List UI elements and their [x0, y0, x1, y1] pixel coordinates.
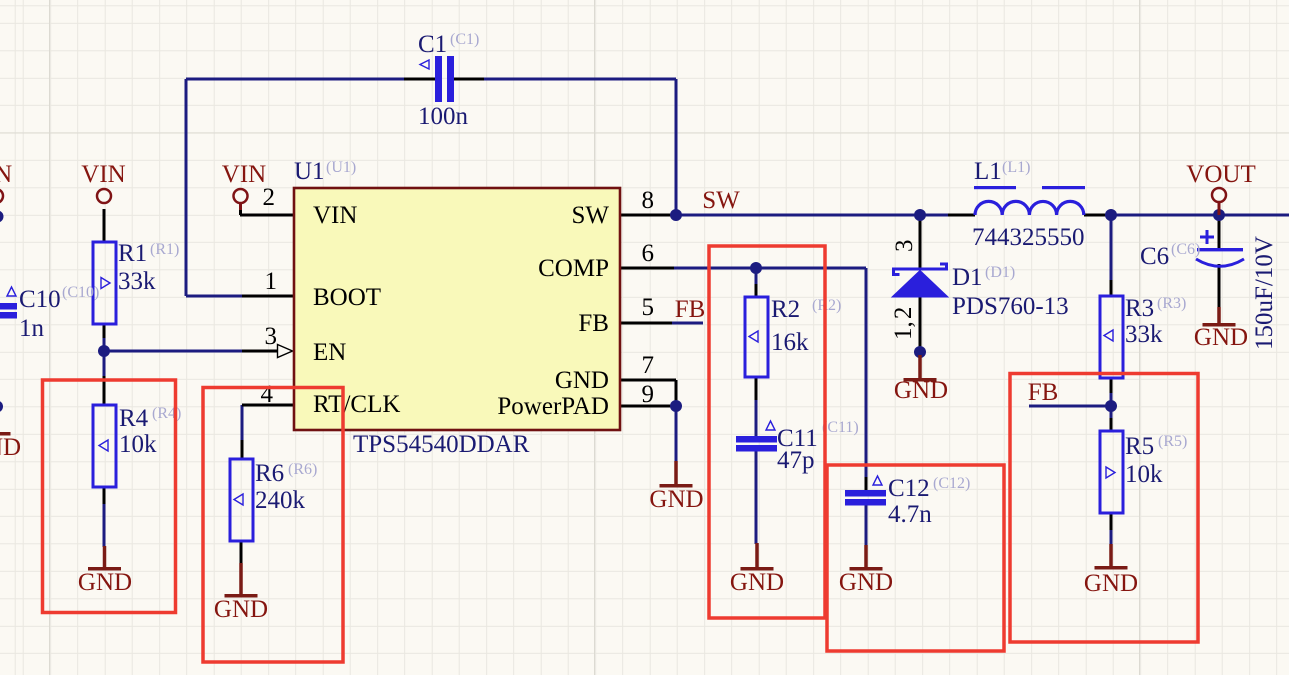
selection box around R2 C11 — [709, 246, 825, 618]
svg-text:GND: GND — [649, 486, 703, 513]
svg-text:U1: U1 — [294, 158, 325, 185]
wire SW node down to R3 — [1110, 215, 1113, 281]
svg-text:1, 2: 1, 2 — [890, 307, 917, 340]
port VOUT — [1186, 161, 1255, 215]
resistor R6 240k — [230, 459, 317, 541]
C6 lower pin stub — [1218, 264, 1221, 309]
svg-text:D1: D1 — [952, 264, 983, 291]
wire FB stub at pin5 — [672, 322, 703, 325]
capacitor C1 — [418, 31, 479, 130]
svg-text:R6: R6 — [255, 460, 284, 487]
port VIN left — [81, 161, 125, 203]
svg-text:1n: 1n — [19, 315, 45, 342]
svg-text:(R1): (R1) — [150, 241, 179, 258]
junction node D1/GND — [914, 346, 926, 358]
selection box around R6 — [203, 388, 343, 663]
wire VOUT node down to C6 — [1218, 215, 1221, 248]
wire SW horizontal run pin8 to L1 — [676, 214, 948, 217]
wire COMP horizontal — [674, 267, 866, 270]
svg-text:(L1): (L1) — [1002, 159, 1030, 176]
wire pin9 node down to GND — [675, 406, 678, 462]
svg-text:SW: SW — [702, 187, 740, 214]
svg-text:(C11): (C11) — [822, 419, 859, 436]
svg-text:PDS760-13: PDS760-13 — [952, 293, 1069, 320]
ground below R4 — [78, 546, 132, 596]
wire R4 bottom to GND — [103, 502, 106, 547]
svg-text:9: 9 — [642, 381, 655, 408]
junction node COMP/R2 — [750, 262, 762, 274]
wire EN horizontal from R1/R4 node — [104, 350, 242, 353]
C1 pin stubs — [404, 78, 484, 81]
pin 6 line — [620, 267, 674, 270]
svg-text:BOOT: BOOT — [313, 284, 381, 311]
junction node R1/R4/EN — [98, 345, 110, 357]
svg-text:3: 3 — [891, 240, 918, 253]
junction node FB/R3/R5 — [1105, 400, 1117, 412]
pin 8 line — [620, 214, 672, 217]
junction node pin8/SW — [670, 209, 682, 221]
svg-text:(R6): (R6) — [288, 461, 317, 478]
wire node down to R4 — [103, 351, 106, 378]
svg-text:GND: GND — [555, 367, 609, 394]
wire BOOT horizontal to pin1 — [186, 295, 242, 298]
svg-text:R1: R1 — [118, 240, 147, 267]
svg-text:1: 1 — [265, 268, 278, 295]
svg-text:150uF/10V: 150uF/10V — [1251, 236, 1278, 350]
svg-text:VOUT: VOUT — [1186, 161, 1255, 188]
svg-text:VIN: VIN — [222, 161, 266, 188]
capacitor C6 150uF/10V polarized — [1140, 230, 1278, 350]
pin 3 line with EN input triangle — [242, 350, 278, 353]
C12 top pin stub — [865, 477, 868, 490]
svg-text:33k: 33k — [118, 268, 156, 295]
L1 pin stubs — [948, 214, 1108, 217]
svg-text:GND: GND — [78, 569, 132, 596]
svg-text:EN: EN — [313, 339, 346, 366]
resistor R5 10k — [1100, 431, 1187, 513]
wire R2 drop from COMP node — [755, 268, 758, 284]
svg-text:(C1): (C1) — [450, 31, 479, 48]
svg-text:C1: C1 — [418, 31, 447, 58]
svg-text:(R3): (R3) — [1157, 295, 1186, 312]
wire C12 bottom to GND — [865, 505, 868, 546]
svg-text:GND: GND — [0, 434, 21, 461]
selection box around R4 — [43, 380, 176, 613]
pin 5 line — [620, 322, 672, 325]
junction node pin9/GND — [670, 400, 682, 412]
R4 pin stubs — [103, 376, 106, 504]
wire SW drop from C1 loop to pin8 — [675, 79, 678, 215]
pin 9 line and link to pin 7 — [620, 380, 676, 406]
svg-text:COMP: COMP — [538, 255, 609, 282]
svg-text:GND: GND — [1084, 570, 1138, 597]
junction sliver at left edge upper — [0, 211, 4, 223]
VIN left port drop to R1 — [103, 209, 106, 242]
resistor R4 10k — [93, 405, 181, 487]
pin 7 line — [620, 379, 676, 382]
svg-text:3: 3 — [265, 323, 278, 350]
junction node SW/D1 — [914, 209, 926, 221]
svg-text:(C12): (C12) — [933, 475, 970, 492]
selection box around R5 — [1010, 374, 1198, 643]
svg-text:10k: 10k — [119, 431, 157, 458]
ground below C12 — [839, 545, 893, 596]
svg-text:R3: R3 — [1125, 295, 1154, 322]
svg-text:R5: R5 — [1125, 433, 1154, 460]
junction node VOUT/C6 — [1213, 209, 1225, 221]
svg-text:C12: C12 — [888, 475, 930, 502]
port VIN pin2 — [222, 161, 266, 210]
wire R5 bottom to GND — [1110, 528, 1113, 545]
diode D1 PDS760-13 schottky — [890, 240, 1069, 341]
svg-text:GND: GND — [839, 569, 893, 596]
wire FB node down to R5 — [1110, 406, 1113, 420]
ground below R5 — [1084, 544, 1138, 597]
capacitor C12 4.7n — [845, 475, 970, 528]
svg-text:R2: R2 — [771, 296, 800, 323]
capacitor C11 47p — [736, 419, 859, 474]
wire COMP drop to C12 — [865, 268, 868, 477]
ground below pin9 — [649, 461, 703, 513]
svg-text:RT/CLK: RT/CLK — [313, 391, 400, 418]
svg-text:R4: R4 — [119, 405, 149, 432]
svg-text:C6: C6 — [1140, 243, 1169, 270]
svg-text:(R5): (R5) — [1158, 433, 1187, 450]
svg-text:FB: FB — [1028, 379, 1059, 406]
resistor R1 33k — [93, 240, 179, 324]
svg-text:GND: GND — [214, 596, 268, 623]
wire R1 bottom to node — [103, 336, 106, 351]
svg-text:47p: 47p — [777, 447, 815, 474]
svg-text:GND: GND — [730, 569, 784, 596]
wire R3 bottom to FB node — [1110, 392, 1113, 406]
svg-text:GND: GND — [1194, 324, 1248, 351]
D1 pin stubs — [919, 215, 922, 348]
svg-text:FB: FB — [675, 296, 706, 323]
svg-text:VIN: VIN — [81, 161, 125, 188]
ground below C6 — [1194, 307, 1248, 351]
svg-text:4: 4 — [261, 381, 274, 408]
svg-text:(C6): (C6) — [1171, 241, 1200, 258]
svg-text:VIN: VIN — [313, 202, 357, 229]
svg-text:(U1): (U1) — [326, 159, 356, 176]
wire pin4 drop to R6 — [241, 405, 244, 442]
selection box around C12 — [827, 465, 1004, 651]
svg-text:SW: SW — [572, 202, 610, 229]
svg-text:240k: 240k — [255, 487, 306, 514]
svg-text:L1: L1 — [974, 158, 1002, 185]
svg-text:8: 8 — [642, 187, 655, 214]
ground below C11 — [730, 543, 784, 596]
junction node L1/R3 — [1105, 209, 1117, 221]
svg-text:100n: 100n — [418, 103, 469, 130]
wire C1 right horizontal — [483, 78, 676, 81]
svg-text:TPS54540DDAR: TPS54540DDAR — [353, 431, 530, 458]
wire C1 left horizontal — [186, 78, 406, 81]
svg-text:(C10): (C10) — [62, 284, 99, 301]
svg-text:10k: 10k — [1125, 461, 1163, 488]
op-amp U1 TPS54540DDAR body — [294, 188, 620, 430]
pin 2 line — [240, 209, 293, 215]
R6 pin stubs — [241, 440, 242, 564]
wire C11 bottom to GND — [755, 451, 758, 544]
wire R2 bottom to C11 — [755, 398, 758, 436]
svg-text:33k: 33k — [1125, 321, 1163, 348]
svg-text:PowerPAD: PowerPAD — [497, 393, 609, 420]
pin 1 line — [242, 295, 293, 298]
wire FB net stub to node — [1029, 405, 1111, 408]
wire BOOT vertical from C1 loop to pin1 — [185, 79, 188, 296]
ground below R6 — [214, 563, 268, 623]
port VIN far-left cut — [0, 161, 12, 203]
svg-text:7: 7 — [642, 352, 655, 379]
svg-text:5: 5 — [642, 294, 655, 321]
svg-text:VIN: VIN — [0, 161, 12, 188]
R2 pin stubs — [755, 284, 758, 400]
svg-text:2: 2 — [263, 184, 276, 211]
resistor R3 33k — [1100, 295, 1186, 378]
svg-text:GND: GND — [894, 377, 948, 404]
junction sliver at left edge lower — [0, 401, 3, 413]
ground below D1 — [894, 355, 948, 404]
svg-text:FB: FB — [578, 310, 609, 337]
ground far-left cut — [0, 432, 21, 461]
wire L1 to VOUT and right edge — [1107, 214, 1289, 217]
svg-text:16k: 16k — [771, 329, 809, 356]
svg-text:(D1): (D1) — [985, 264, 1015, 281]
resistor R2 16k — [745, 296, 841, 377]
svg-text:6: 6 — [642, 240, 655, 267]
inductor L1 744325550 — [972, 158, 1085, 251]
svg-text:C10: C10 — [19, 286, 61, 313]
pin 4 line — [242, 404, 293, 407]
svg-text:4.7n: 4.7n — [888, 501, 932, 528]
R1 pin stubs — [103, 324, 106, 338]
R5 pin stubs — [1110, 418, 1113, 530]
capacitor C10 1n (cut at left edge) — [0, 284, 99, 342]
R3 pin stubs — [1110, 280, 1113, 393]
svg-text:744325550: 744325550 — [972, 224, 1085, 251]
